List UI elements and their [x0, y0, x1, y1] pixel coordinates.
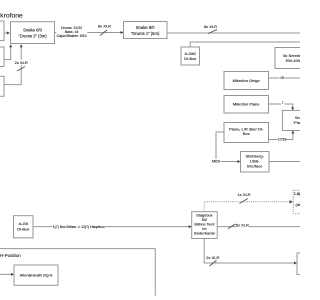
svg-text:6x XLR: 6x XLR [236, 223, 249, 228]
label 8x XLR 1 [98, 24, 111, 29]
label 8x XLR 2 [204, 24, 217, 29]
svg-text:Allen&Heath SQ-6: Allen&Heath SQ-6 [20, 273, 53, 278]
wire L3 to Snake 6/0 bottom [4, 45, 21, 84]
label Drums/Bass/Cajon channels [56, 26, 87, 38]
slash on 8x XLR wire 1 [100, 30, 107, 36]
label 19 [280, 76, 285, 81]
wire A-Git DI-Box to Stagebox [33, 226, 191, 228]
wire L2 to Snake 6/0 bottom [4, 45, 11, 59]
wire Piano to Snake Piano top [269, 104, 293, 110]
box Mikrofon Geige [224, 72, 269, 90]
wire L1 to Snake 6/0 [4, 32, 9, 34]
svg-text:“Drums 2” (3m): “Drums 2” (3m) [18, 33, 47, 38]
box Snake 6/0 Drums 2 [11, 22, 55, 44]
slash on 8x XLR wire 2 [208, 30, 217, 34]
wire MIDI from Piano DI to Steinberg [216, 132, 240, 162]
label 2x XLR [14, 60, 28, 65]
slash on 2x XLR bottom wire [210, 260, 217, 266]
svg-text:2x XLR: 2x XLR [206, 255, 219, 260]
label 17/18 [278, 137, 287, 142]
box Steinberg USB interface [241, 152, 270, 173]
svg-text:MIDI: MIDI [212, 159, 220, 164]
box Piano L/R ueber DI-Box [224, 123, 269, 143]
box Mikrofon Piano [224, 96, 269, 114]
wire Piano DI 17/18 to Snake Piano bottom [269, 131, 293, 139]
wire Steinberg to right edge [269, 161, 300, 163]
svg-text:Laptop: Laptop [294, 191, 300, 196]
wire Stagebox 2x XLR to bottom right box [204, 239, 296, 264]
box bottom right (cut off) [297, 253, 320, 275]
svg-text:Snake 6/0: Snake 6/0 [23, 27, 43, 32]
wire Geige to right edge [269, 77, 301, 79]
svg-text:Snake 8/0: Snake 8/0 [136, 25, 156, 30]
svg-text:Cajon/Shaker: 9/10: Cajon/Shaker: 9/10 [57, 34, 87, 38]
svg-text:Mikrofone: Mikrofone [0, 13, 23, 20]
box Snake 8/0 Drums 1 [124, 22, 168, 39]
svg-text:DI-Box: DI-Box [184, 56, 196, 61]
svg-text:EW-100 G4: EW-100 G4 [286, 58, 300, 63]
label 7 [281, 101, 284, 105]
FoH container top edge [0, 248, 155, 250]
dashed box Laptop (cut off right) [293, 190, 320, 213]
svg-text:8x XLR: 8x XLR [204, 24, 217, 29]
dashed wire Stagebox to Laptop [204, 202, 289, 212]
svg-text:1(7) Box Bühne -> 12(7) Hauptb: 1(7) Box Bühne -> 12(7) Hauptbox [53, 225, 105, 229]
box Snake Piano (cut off right) [282, 110, 320, 130]
label 1(7) Box Buehne -> 12(7) Hauptbox [53, 224, 106, 229]
box 6x Sennheiser EW (cut off right) [275, 48, 317, 69]
svg-text:7: 7 [282, 101, 284, 105]
svg-text:“Drums 1” (5m): “Drums 1” (5m) [131, 31, 160, 36]
box Allen&Heath SQ-6 [14, 265, 58, 285]
svg-text:DI-Box: DI-Box [17, 226, 29, 231]
svg-text:Box: Box [243, 131, 250, 136]
wire A-Git2 DI-Box up and right edge [190, 42, 300, 47]
svg-text:Bodenkanal: Bodenkanal [194, 230, 215, 235]
slash on 6x XLR wire [228, 224, 236, 229]
svg-text:FoH-Position: FoH-Position [0, 253, 21, 258]
label 2x XLR bottom [206, 255, 219, 260]
svg-text:‘Piano’ (5m): ‘Piano’ (5m) [293, 120, 300, 125]
svg-text:Interface: Interface [247, 164, 263, 169]
wire Stagebox 6x XLR to right edge [217, 226, 300, 228]
wire into Allen&Heath SQ-6 [0, 273, 13, 275]
box A-Git2 DI-Box [181, 47, 200, 65]
svg-text:(digital): (digital) [296, 202, 301, 207]
box Stagebox 6/2 [192, 212, 218, 239]
svg-text:17/18: 17/18 [278, 138, 287, 142]
FoH container right edge [154, 249, 156, 296]
svg-text:Mikrofon Geige: Mikrofon Geige [233, 78, 261, 83]
svg-text:1x XLR: 1x XLR [237, 192, 250, 197]
svg-text:2x XLR: 2x XLR [15, 60, 28, 65]
slash on 1x XLR wire [240, 199, 248, 204]
mic box L2 (cut off) [0, 47, 4, 67]
wire Snake 6/0 to Snake 8/0 [55, 32, 123, 34]
svg-text:8x XLR: 8x XLR [98, 24, 111, 29]
label 1x XLR [237, 192, 250, 197]
box A-Git DI-Box [14, 216, 34, 238]
wire Snake 8/0 to right edge [167, 32, 300, 34]
svg-text:19: 19 [280, 76, 284, 80]
label MIDI [211, 159, 221, 164]
label 6x XLR [236, 223, 249, 228]
svg-text:Mikrofon Piano: Mikrofon Piano [233, 102, 260, 107]
slash on 2x XLR wire [17, 67, 25, 72]
mic box L3 (cut off) [0, 76, 4, 96]
mic box L1 (cut off) [0, 21, 4, 41]
